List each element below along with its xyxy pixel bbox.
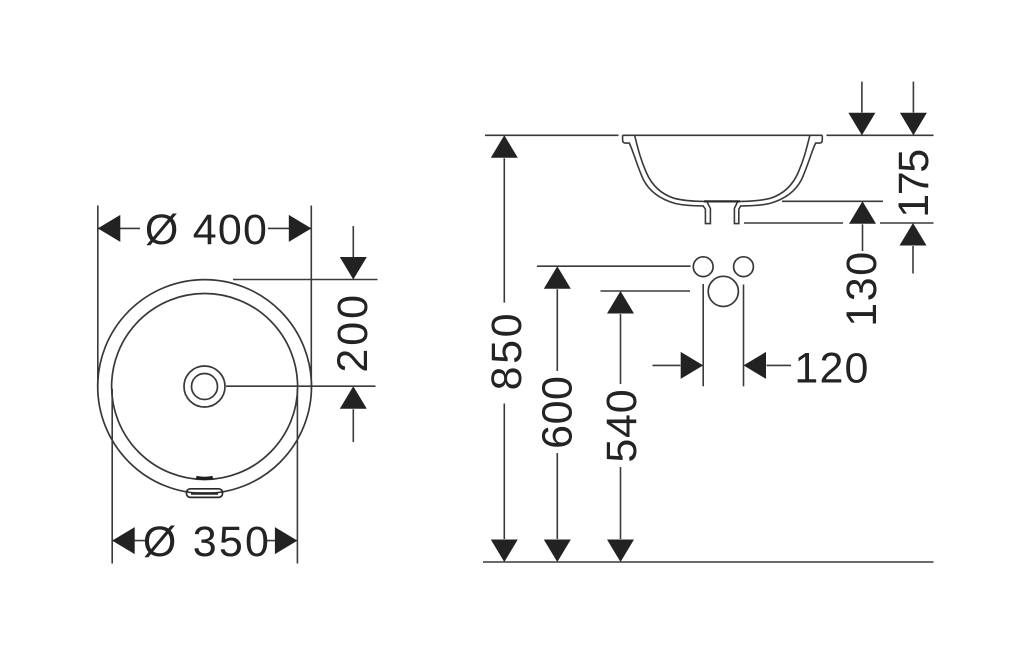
svg-text:Ø 350: Ø 350 — [143, 518, 271, 566]
drain outer circle — [184, 366, 225, 407]
big hole reference line (540) — [601, 290, 691, 292]
svg-text:175: 175 — [890, 150, 938, 218]
basin section outer wall right — [734, 135, 822, 223]
svg-text:600: 600 — [534, 376, 582, 449]
tap hole centre (large) — [708, 276, 738, 306]
basin section outer wall left — [623, 135, 711, 223]
extension line left (Ø350) — [111, 389, 113, 564]
faucet reference line (600) — [537, 265, 691, 267]
overflow slot on outer circle — [187, 489, 223, 498]
120 dim left stem — [653, 364, 681, 366]
basin section inner wall left — [635, 135, 704, 201]
175 top stem — [912, 82, 914, 113]
overflow mark on inner circle — [196, 476, 213, 480]
130 top stem — [861, 82, 863, 113]
svg-text:540: 540 — [598, 389, 646, 463]
basin bottom reference line (130) — [782, 200, 883, 202]
200 dim upper stem — [352, 226, 354, 257]
850 dim upper stem — [503, 158, 505, 302]
tap hole right — [734, 257, 754, 277]
600 dim upper arrow (up) — [544, 266, 571, 289]
600 dim lower arrow (down) — [544, 540, 571, 563]
600 dim upper stem — [556, 289, 558, 371]
arrow 120 left (right-pointing) — [681, 352, 704, 379]
tap hole left — [693, 257, 713, 277]
svg-text:850: 850 — [483, 311, 531, 391]
600 dim lower stem — [556, 453, 558, 539]
arrow 200 bottom (up) — [340, 386, 367, 409]
arrow 130 bottom (up) — [849, 201, 876, 224]
540 dim upper stem — [620, 314, 622, 384]
drain inner circle — [192, 374, 218, 400]
arrow 130 top (down) — [848, 113, 875, 136]
datum line left segment (counter level) — [485, 134, 619, 136]
arrow Ø350 right — [275, 527, 298, 554]
dimension line Ø400 left stub — [99, 227, 141, 229]
arrow 175 top (down) — [900, 113, 927, 136]
drain bottom reference line (175) left part — [744, 222, 843, 224]
175 bottom stem — [912, 246, 914, 274]
extension line left (Ø400) — [97, 206, 99, 390]
850 dim upper arrow (up) — [491, 135, 518, 158]
120 extension line right — [743, 285, 745, 387]
outer circle Ø400 — [98, 280, 312, 494]
850 dim lower stem — [503, 404, 505, 540]
dimension line Ø350 left stub — [113, 540, 145, 542]
130 bottom stem — [862, 224, 864, 251]
dimension line Ø350 right stub — [267, 540, 297, 542]
540 dim lower arrow (down) — [607, 540, 634, 563]
120 extension line left — [702, 284, 704, 386]
svg-text:130: 130 — [838, 250, 886, 327]
svg-text:200: 200 — [329, 292, 377, 373]
extension line right (Ø350) — [296, 389, 298, 564]
540 dim lower stem — [620, 467, 622, 539]
dimension line Ø400 right stub — [268, 227, 311, 229]
svg-text:Ø 400: Ø 400 — [145, 206, 268, 254]
reference line at drain centre (for 200) — [226, 385, 376, 387]
svg-text:120: 120 — [794, 345, 869, 393]
basin inner bottom line — [704, 200, 740, 202]
arrow Ø350 left — [112, 527, 135, 554]
850 dim lower arrow (down) — [491, 540, 518, 563]
extension line right (Ø400) — [310, 206, 312, 390]
floor line — [483, 561, 934, 563]
arrow Ø400 left — [98, 215, 121, 242]
overflow slot inner bar — [191, 492, 218, 495]
arrow 200 top (down) — [340, 257, 367, 280]
arrow Ø400 right — [289, 215, 312, 242]
inner circle Ø350 — [112, 294, 298, 480]
basin section rim top — [623, 134, 823, 136]
basin section inner wall right — [740, 135, 810, 201]
120 dim right stem — [767, 364, 792, 366]
arrow 175 bottom (up) — [900, 223, 927, 246]
datum line right segment — [827, 134, 934, 136]
arrow 120 right (left-pointing) — [744, 352, 767, 379]
540 dim upper arrow (up) — [607, 291, 634, 314]
200 dim lower stem — [352, 409, 354, 442]
drain bottom reference line (175) right part — [880, 222, 934, 224]
reference line at circle top (for 200) — [233, 279, 378, 281]
